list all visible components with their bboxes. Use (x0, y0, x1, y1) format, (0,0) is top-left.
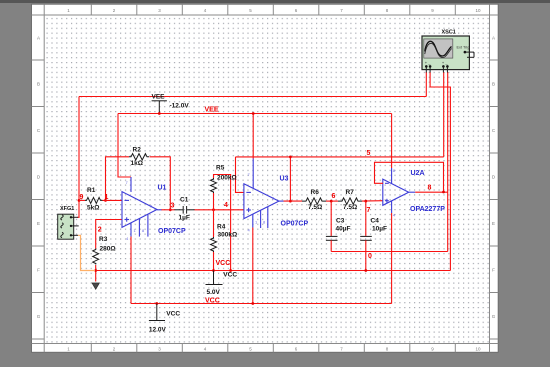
wire U1 output to U3 (161, 209, 175, 211)
junction U3 feedback top (289, 156, 292, 159)
resistor R7 (338, 198, 362, 204)
wire scope B- drop to node0 rail (447, 72, 449, 252)
svg-text:OPA2277P: OPA2277P (410, 206, 445, 213)
svg-text:A: A (37, 36, 40, 41)
resistor R6 (302, 198, 326, 204)
svg-text:VCC: VCC (205, 298, 220, 305)
wire scope gnd drop (430, 72, 450, 271)
ground rail horizontal (96, 270, 451, 272)
svg-text:B: B (492, 82, 495, 87)
svg-text:9: 9 (80, 194, 84, 201)
wire scope A+ drop (425, 72, 427, 97)
svg-text:U2A: U2A (411, 170, 425, 177)
wire U3 feedback drop (289, 157, 291, 201)
wire node9 to scope A+ (top horizontal) (79, 96, 426, 98)
op-amp U2A (383, 168, 445, 218)
svg-text:7.5Ω: 7.5Ω (343, 204, 357, 211)
resistor R5 wires (213, 193, 215, 210)
svg-text:G: G (37, 314, 41, 319)
VEE supply symbol (152, 94, 190, 115)
junction U3 V- on VCC rail (251, 302, 254, 305)
wire node5 rail (236, 156, 444, 158)
svg-text:1µF: 1µF (179, 215, 190, 222)
svg-text:7.5Ω: 7.5Ω (308, 204, 322, 211)
wire R3 bottom (95, 265, 97, 282)
oscilloscope XSC1 (422, 30, 474, 73)
svg-text:VEE: VEE (152, 94, 166, 101)
svg-text:R6: R6 (311, 189, 320, 196)
svg-text:OP07CP: OP07CP (281, 221, 309, 228)
orange wire XFG1 to ground rail (78, 235, 95, 270)
node 1 junction (104, 199, 107, 202)
node 3 junction (feedback to output) (169, 208, 172, 211)
svg-text:C1: C1 (180, 197, 189, 204)
svg-text:1kΩ: 1kΩ (131, 160, 143, 167)
svg-text:280Ω: 280Ω (100, 246, 116, 253)
svg-text:U1: U1 (158, 185, 167, 192)
svg-text:R5: R5 (216, 165, 225, 172)
resistor R1 wires (79, 199, 85, 201)
svg-text:R2: R2 (133, 147, 142, 154)
svg-text:VEE: VEE (205, 107, 219, 114)
svg-text:R7: R7 (346, 189, 355, 196)
svg-text:+ _: + _ (425, 60, 431, 65)
wire VEE rail (118, 113, 392, 115)
svg-text:R4: R4 (217, 224, 226, 231)
node 6 junction (330, 200, 333, 203)
junction U3 V+ on VEE rail (252, 112, 255, 115)
VCC 5.0V supply symbol (206, 271, 238, 297)
node 4 junction (212, 208, 215, 211)
wire R7 to U2A (362, 200, 383, 202)
svg-text:10µF: 10µF (372, 226, 387, 233)
resistor R2 feedback loop wires (106, 157, 130, 201)
svg-text:XSC1: XSC1 (442, 30, 456, 36)
VCC rail (12V) (131, 303, 392, 305)
svg-text:VCC: VCC (166, 311, 180, 318)
wire U1 V- to VCC rail (130, 237, 132, 304)
XFG1 function generator (58, 206, 79, 239)
svg-text:A: A (492, 36, 495, 41)
svg-text:7: 7 (367, 207, 371, 214)
svg-text:300kΩ: 300kΩ (218, 232, 238, 239)
svg-text:+ _: + _ (442, 60, 448, 65)
junction R5 drop on ground rail (229, 269, 232, 272)
svg-text:5kΩ: 5kΩ (87, 205, 99, 212)
svg-text:10: 10 (475, 8, 481, 13)
node 9 junction (78, 199, 81, 202)
capacitor C4 (360, 201, 387, 272)
ground (92, 283, 99, 289)
U2A feedback loop (375, 162, 444, 192)
svg-text:VCC: VCC (223, 272, 237, 279)
resistor R4 wires (213, 210, 215, 237)
wire VEE rail to U1 V+ (118, 114, 131, 178)
junction VCC supply on rail (155, 302, 158, 305)
svg-text:F: F (492, 268, 495, 273)
svg-text:XFG1: XFG1 (60, 206, 74, 212)
svg-text:6: 6 (332, 193, 336, 200)
wire U2A V+ drop (391, 114, 393, 169)
svg-text:0: 0 (368, 253, 372, 260)
svg-text:5.0V: 5.0V (207, 289, 221, 296)
svg-text:10: 10 (475, 347, 481, 352)
resistor R2 (129, 154, 149, 160)
svg-text:-12.0V: -12.0V (170, 103, 190, 110)
svg-text:R3: R3 (99, 236, 108, 243)
svg-text:OP07CP: OP07CP (158, 228, 186, 235)
wire R6 to R7 (326, 200, 338, 202)
resistor R3 (93, 249, 99, 265)
svg-text:B: B (37, 82, 40, 87)
resistor R4 (211, 237, 217, 252)
ruler tick labels (37, 8, 496, 352)
svg-text:3: 3 (171, 203, 175, 210)
wire U2A output node8 (415, 191, 448, 193)
svg-text:Ext Trig: Ext Trig (457, 46, 470, 50)
junction R3 / ground rail (94, 269, 97, 272)
svg-text:5: 5 (367, 150, 371, 157)
resistor R5 (211, 178, 217, 193)
svg-text:E: E (492, 221, 495, 226)
svg-text:8: 8 (428, 185, 432, 192)
junction node8 feedback (442, 191, 445, 194)
svg-text:VCC: VCC (216, 260, 231, 267)
capacitor C3 (326, 201, 351, 251)
wire U3 V- to VCC rail (252, 228, 254, 304)
wire scope B+ drop to node5 (443, 72, 445, 157)
node 7 junction (364, 200, 367, 203)
wire U3 out to R6 (284, 200, 303, 202)
svg-text:12.0V: 12.0V (149, 327, 167, 334)
wire left vertical drop to XFG1 pin1 (78, 97, 80, 218)
svg-text:R1: R1 (87, 187, 96, 194)
wire node5 to U3 - input (236, 157, 245, 193)
wire U3 V+ drop (252, 114, 254, 159)
op-amp U3 (244, 159, 309, 233)
junction U3 output (289, 200, 292, 203)
svg-text:F: F (37, 268, 40, 273)
svg-text:40µF: 40µF (336, 226, 351, 233)
capacitor C1 (175, 197, 195, 222)
junction R4 / 5V supply on rail (212, 269, 215, 272)
resistor R1 (85, 197, 103, 203)
svg-text:C3: C3 (336, 218, 345, 225)
op-amp U1 (122, 177, 186, 241)
svg-text:C4: C4 (371, 218, 380, 225)
svg-text:2: 2 (98, 227, 102, 234)
svg-text:1: 1 (105, 194, 109, 201)
svg-text:E: E (37, 221, 40, 226)
VCC 12.0V supply symbol (149, 304, 180, 334)
svg-text:4: 4 (224, 202, 228, 209)
node0 rail (331, 251, 448, 253)
svg-text:U3: U3 (280, 176, 289, 183)
svg-text:G: G (492, 314, 496, 319)
top dark window band (0, 0, 550, 3)
wire node2 to U1 + input (96, 220, 122, 249)
wire U2A V- to VCC rail (391, 213, 393, 304)
svg-text:200kΩ: 200kΩ (217, 175, 237, 182)
